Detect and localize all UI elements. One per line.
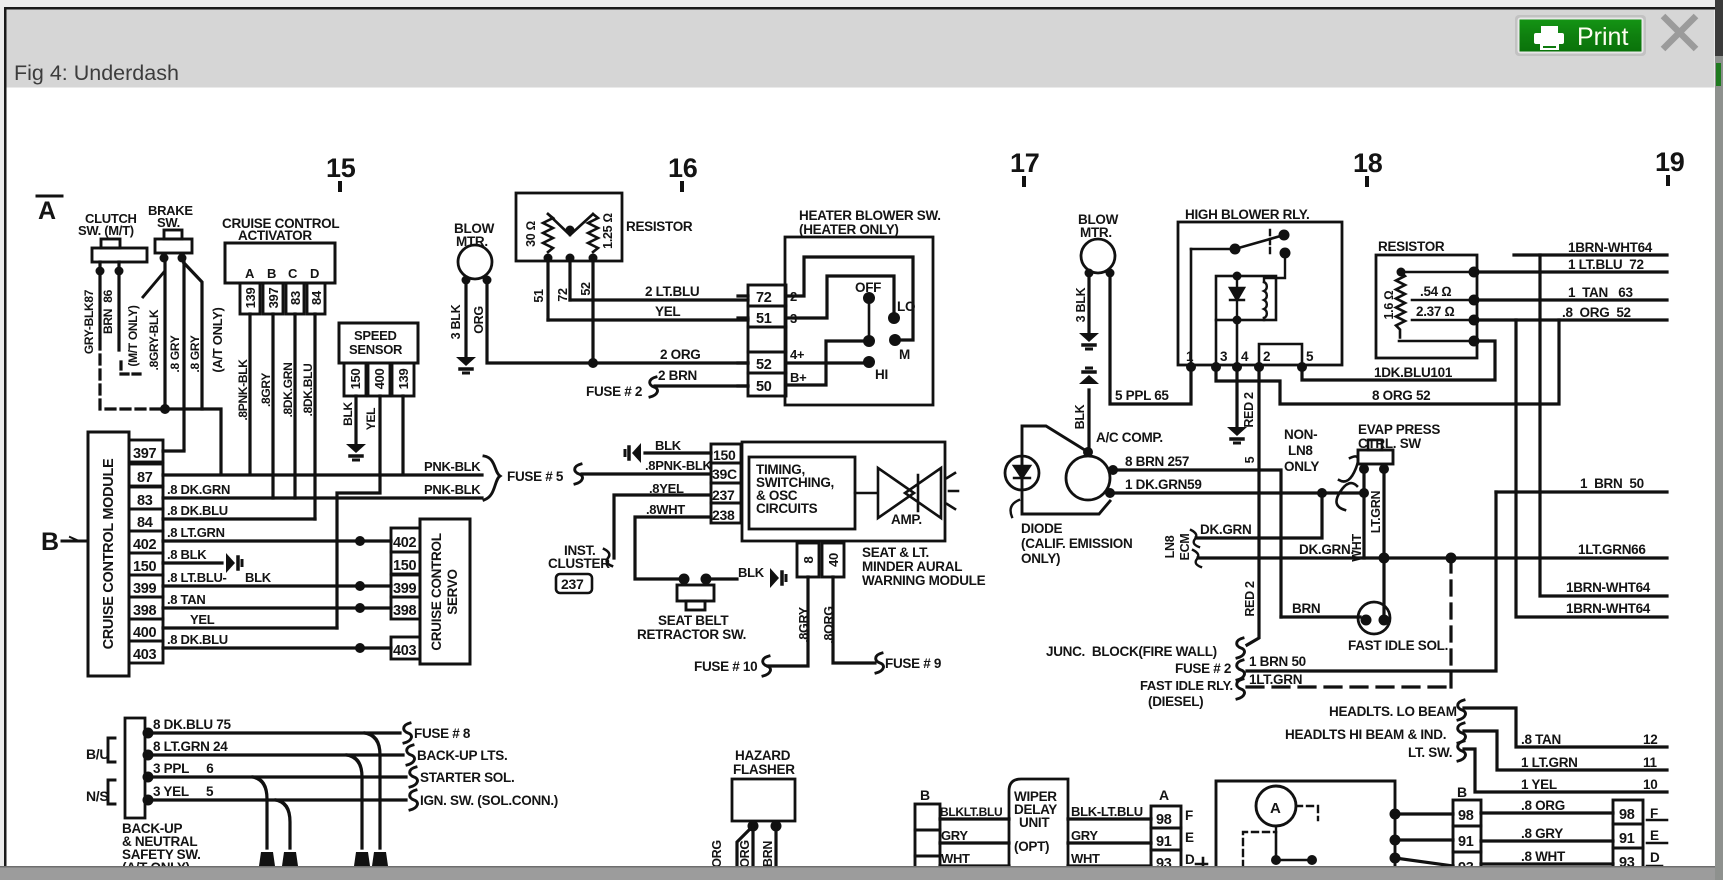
A connector box 91	[1151, 828, 1181, 850]
relay pin 4 conductor	[1236, 320, 1239, 365]
wire 51 resistor down	[546, 258, 549, 320]
svg-text:.8 GRY: .8 GRY	[188, 335, 202, 372]
wire 72 resistor down	[568, 258, 571, 300]
svg-text:398: 398	[393, 603, 417, 619]
svg-text:.8 ORG 52: .8 ORG 52	[1562, 305, 1631, 320]
svg-text:CRUISE CONTROL MODULE: CRUISE CONTROL MODULE	[101, 458, 117, 649]
svg-text:FUSE # 2: FUSE # 2	[1175, 661, 1231, 676]
hook before fuse5 wire	[575, 464, 583, 484]
svg-text:3 BLK: 3 BLK	[449, 304, 463, 339]
svg-text:(CALIF. EMISSION: (CALIF. EMISSION	[1021, 536, 1132, 551]
branch curve from wire2 down	[347, 755, 362, 848]
dashed wire clutch to junction	[100, 340, 160, 409]
svg-text:1LT.GRN66: 1LT.GRN66	[1578, 542, 1646, 557]
servo pin box 402	[391, 528, 420, 552]
module pin box 83	[129, 487, 163, 509]
svg-text:ONLY: ONLY	[1284, 459, 1319, 474]
svg-text:.8 LT.GRN: .8 LT.GRN	[167, 525, 225, 540]
blow motor M1 circle	[458, 245, 492, 279]
wire row 84 .8 DK.BLU	[163, 517, 315, 520]
svg-text:JUNC. BLOCK(FIRE WALL): JUNC. BLOCK(FIRE WALL)	[1046, 644, 1217, 659]
titlebar gray band	[7, 10, 1715, 88]
svg-text:3: 3	[1220, 349, 1228, 364]
A/C comp enclosure	[1022, 426, 1110, 514]
svg-text:.8 BLK: .8 BLK	[167, 547, 207, 562]
resistor coil left	[543, 214, 553, 252]
wire 1 TAN 63	[1477, 298, 1667, 301]
svg-text:FUSE # 2: FUSE # 2	[586, 384, 642, 399]
svg-text:BLK: BLK	[341, 401, 355, 425]
wire BLKLT.BLU wiper left	[940, 817, 1009, 820]
svg-text:150: 150	[713, 447, 736, 463]
svg-text:238: 238	[712, 507, 735, 523]
wire WHT wiper right	[1068, 864, 1151, 867]
close X icon	[1663, 16, 1696, 49]
section 16 tick	[680, 183, 684, 190]
wire .8DK.GRN activator C down	[293, 314, 296, 498]
high blower relay box K1	[1178, 222, 1342, 365]
svg-text:15: 15	[326, 153, 356, 183]
wire .8 GRY brake vertical 2 (A/T)	[184, 263, 202, 409]
svg-text:WARNING MODULE: WARNING MODULE	[862, 573, 986, 588]
svg-text:A: A	[1159, 787, 1169, 803]
svg-text:PNK-BLK: PNK-BLK	[424, 459, 481, 474]
wire GRY wiper left	[940, 841, 1009, 844]
A connector box 93	[1151, 850, 1181, 872]
node on LT.GRN net	[1446, 553, 1457, 564]
lamp A circle	[1256, 786, 1296, 826]
svg-text:.8 GRY: .8 GRY	[168, 335, 182, 372]
relay coil winding	[1264, 282, 1267, 318]
relay dashed actuator line	[1269, 230, 1271, 253]
svg-text:D: D	[310, 266, 319, 281]
svg-text:RETRACTOR SW.: RETRACTOR SW.	[637, 627, 746, 642]
wire lo beam to .8 TAN 12	[1464, 708, 1667, 747]
svg-text:1 BRN 50: 1 BRN 50	[1249, 654, 1306, 669]
svg-text:BACK-UP LTS.: BACK-UP LTS.	[417, 748, 507, 763]
svg-text:BRN: BRN	[761, 841, 775, 867]
svg-text:5: 5	[1306, 349, 1314, 364]
svg-text:SENSOR: SENSOR	[349, 342, 403, 357]
wire LT.GRN evap right pin down to sol	[1382, 469, 1385, 619]
wire 8 BRN 257	[1113, 470, 1281, 617]
resistor V link	[548, 214, 593, 235]
lamp box right edge dots	[1390, 809, 1401, 820]
heater resistor box R1	[516, 193, 622, 261]
svg-text:CIRCUITS: CIRCUITS	[756, 501, 818, 516]
A connector box 98	[1151, 806, 1181, 828]
svg-text:5: 5	[1243, 456, 1257, 463]
svg-text:RED 2: RED 2	[1243, 581, 1257, 617]
wire retractor to BLK ground	[706, 577, 737, 580]
svg-text:399: 399	[393, 581, 417, 597]
lamp stub right	[1296, 806, 1318, 820]
wire .8PNK-BLK activator A down	[248, 314, 251, 474]
wire .8YEL inst cluster to 237	[614, 495, 711, 558]
wire WHT wiper left	[940, 864, 1009, 867]
hook FUSE #8	[404, 723, 412, 743]
ground speed sensor	[346, 444, 366, 460]
svg-text:.8 WHT: .8 WHT	[1521, 849, 1566, 864]
svg-text:1 YEL: 1 YEL	[1521, 777, 1557, 792]
wire row 400 YEL	[163, 626, 337, 629]
ground retractor (sideways right)	[770, 568, 786, 588]
svg-text:139: 139	[243, 288, 258, 309]
svg-text:398: 398	[133, 603, 157, 619]
module bottom pin box 8	[797, 543, 819, 577]
svg-text:16: 16	[668, 153, 698, 183]
svg-text:LT.GRN: LT.GRN	[1369, 491, 1383, 534]
wires lamp box to B column	[1395, 814, 1453, 866]
evap press ctrl switch SW5	[1368, 440, 1382, 450]
svg-text:5 PPL 65: 5 PPL 65	[1115, 388, 1169, 403]
svg-text:(M/T ONLY): (M/T ONLY)	[126, 305, 140, 367]
vertical from ORG52 to BRN-WHT64 lower	[1516, 320, 1667, 617]
svg-text:84: 84	[137, 515, 153, 531]
svg-text:SW. (M/T): SW. (M/T)	[78, 223, 134, 238]
wire .8 ORG 52 right	[1477, 318, 1667, 321]
wire row 150 .8 BLK to ground	[163, 561, 222, 564]
hazard flasher box	[732, 779, 795, 821]
B/U bracket	[108, 738, 115, 762]
svg-text:SEAT BELT: SEAT BELT	[658, 613, 729, 628]
svg-text:87: 87	[137, 470, 153, 486]
svg-text:ORG: ORG	[738, 840, 752, 868]
237 boxed label	[556, 574, 592, 593]
svg-text:399: 399	[133, 581, 157, 597]
B column box 98	[1453, 800, 1481, 826]
wire .8GRY module 8 down	[768, 577, 808, 666]
svg-text:72: 72	[756, 290, 772, 306]
svg-text:BLK: BLK	[738, 565, 765, 580]
svg-text:4: 4	[1241, 349, 1249, 364]
svg-text:30 Ω: 30 Ω	[524, 221, 538, 247]
svg-text:DK.GRN: DK.GRN	[1200, 522, 1251, 537]
wire ORG blow mtr to 52 node	[487, 280, 593, 363]
svg-text:(DIESEL): (DIESEL)	[1148, 694, 1203, 709]
wire GRY-BLK 87 from clutch	[98, 275, 101, 337]
svg-text:E: E	[1185, 830, 1194, 845]
svg-text:91: 91	[1156, 834, 1172, 850]
module pin box 397	[129, 440, 163, 462]
svg-text:HEATER BLOWER SW.: HEATER BLOWER SW.	[799, 208, 941, 223]
resistor right edge dots	[1469, 267, 1480, 278]
cruise control servo box U2	[420, 519, 470, 664]
svg-text:.8WHT: .8WHT	[646, 502, 685, 517]
brace } before FUSE #5	[484, 456, 500, 500]
wire pin5 1DK.BLU101 to resistor18	[1302, 341, 1495, 380]
svg-text:1 TAN 63: 1 TAN 63	[1568, 285, 1634, 300]
wire row 398 .8 TAN to servo	[163, 606, 391, 609]
heater inner wire pin2 to M	[786, 257, 913, 340]
resistor 18 inner line to top-right	[1401, 271, 1477, 274]
svg-text:8: 8	[801, 556, 816, 563]
branch curve from wire4 down	[276, 800, 290, 848]
wire 1BRN-WHT64 top	[1514, 253, 1667, 256]
svg-text:.8ORG: .8ORG	[822, 606, 836, 643]
wire 8 DK.BLU 75 to FUSE #8	[148, 731, 400, 734]
wire .8 GRY to E91	[1481, 839, 1613, 842]
wire BRN to fast idle sol	[1281, 615, 1360, 618]
svg-text:D: D	[1185, 852, 1195, 867]
wire pin4 to ground RED 2	[1235, 367, 1238, 427]
wire 1 DK.GRN 59	[1110, 491, 1364, 494]
svg-text:RED 2: RED 2	[1242, 392, 1256, 428]
wire lt sw to 1 YEL 10	[1464, 749, 1667, 792]
svg-text:B: B	[1457, 784, 1467, 800]
svg-text:72: 72	[556, 288, 570, 302]
svg-text:ORG: ORG	[472, 306, 486, 334]
dashed bracket under clutch wires	[121, 362, 142, 374]
svg-text:83: 83	[288, 291, 303, 305]
dashed wire 1LT.GRN fast idle rly	[1247, 685, 1451, 688]
svg-text:YEL: YEL	[655, 304, 680, 319]
activator pin box 139	[240, 283, 260, 314]
svg-text:1BRN-WHT64: 1BRN-WHT64	[1568, 240, 1653, 255]
svg-text:YEL: YEL	[190, 612, 215, 627]
module pin box 84	[129, 509, 163, 531]
wire BRN 86 from clutch	[117, 275, 120, 350]
module pin box 399	[129, 575, 163, 597]
svg-text:.8 DK.BLU: .8 DK.BLU	[167, 503, 228, 518]
heater inner wire pin50/B+ up	[786, 341, 863, 385]
relay pin 3 conductor	[1215, 320, 1218, 365]
twisted pair squiggle	[1336, 456, 1358, 510]
svg-text:LN8: LN8	[1288, 443, 1313, 458]
resistor coil right	[588, 214, 598, 252]
svg-text:.8PNK-BLK: .8PNK-BLK	[645, 458, 713, 473]
svg-text:YEL: YEL	[364, 408, 378, 430]
wire 8 LT.GRN 24 to BACK-UP LTS	[148, 753, 403, 756]
servo pin box 150	[391, 552, 420, 574]
speed sensor pin box 139	[392, 363, 414, 396]
svg-text:237: 237	[561, 576, 584, 592]
relay diode CR	[1230, 276, 1244, 320]
cruise control activator box	[225, 243, 335, 283]
svg-text:8 ORG 52: 8 ORG 52	[1372, 388, 1430, 403]
svg-text:98: 98	[1619, 807, 1635, 823]
wire hi beam to 1 LT.GRN 11	[1464, 731, 1667, 770]
2.37 ohm tap	[1412, 319, 1477, 322]
svg-text:98: 98	[1156, 812, 1172, 828]
svg-text:.8 TAN: .8 TAN	[167, 592, 205, 607]
wire FUSE #5 to 39C	[582, 472, 711, 475]
svg-text:WHT: WHT	[1071, 851, 1100, 866]
resistor 18 box R2	[1376, 255, 1477, 358]
dialog left black border	[4, 7, 7, 866]
svg-text:RESISTOR: RESISTOR	[1378, 239, 1445, 254]
svg-text:8 LT.GRN 24: 8 LT.GRN 24	[153, 739, 228, 754]
svg-text:2.37 Ω: 2.37 Ω	[1416, 304, 1455, 319]
svg-text:B+: B+	[790, 370, 807, 385]
module pin box 150	[129, 553, 163, 575]
svg-text:E: E	[1650, 828, 1659, 843]
branch curve from wire3 down	[253, 777, 267, 848]
resistor bottom tap	[1399, 340, 1477, 343]
svg-text:.8GRY-BLK: .8GRY-BLK	[147, 309, 161, 370]
ground module 150 (sideways)	[226, 553, 242, 573]
ECM wire DK.GRN lower to LT.GRN net	[1198, 556, 1667, 559]
svg-text:1: 1	[1186, 349, 1194, 364]
connector stubs bottom pair 2	[354, 852, 370, 866]
svg-text:1.25 Ω: 1.25 Ω	[601, 213, 615, 249]
svg-text:FUSE # 5: FUSE # 5	[507, 469, 564, 484]
heater pin box 72	[748, 285, 786, 306]
svg-text:DK.GRN.: DK.GRN.	[1299, 542, 1354, 557]
svg-text:MINDER AURAL: MINDER AURAL	[862, 559, 962, 574]
connector stubs bottom pair 1	[259, 852, 275, 866]
wire pin2 5 RED 2 to junction block	[1247, 367, 1259, 645]
svg-text:Print: Print	[1577, 23, 1628, 51]
A/C compressor circle	[1066, 456, 1110, 500]
section 19 tick	[1666, 177, 1670, 184]
svg-text:NON-: NON-	[1284, 427, 1317, 442]
svg-text:N/S: N/S	[86, 788, 108, 804]
svg-text:D: D	[1650, 850, 1660, 865]
heater inner wire pin3 to LO	[786, 276, 894, 318]
svg-text:HIGH BLOWER RLY.: HIGH BLOWER RLY.	[1185, 207, 1309, 222]
wire from sensor 139 to row 87	[401, 396, 404, 474]
svg-text:ECM: ECM	[1178, 534, 1192, 561]
backup pin dots	[143, 728, 154, 739]
svg-text:51: 51	[532, 289, 546, 303]
svg-text:.8 ORG: .8 ORG	[1521, 798, 1565, 813]
F column box 93	[1613, 848, 1643, 872]
svg-text:GRY: GRY	[1071, 828, 1098, 843]
resistor bottom dots	[544, 254, 553, 263]
right scrollbar green thumb	[1716, 63, 1721, 86]
svg-text:40: 40	[826, 553, 841, 567]
module pin box 398	[129, 597, 163, 619]
dialog top black border	[4, 7, 1715, 10]
svg-text:B/U: B/U	[86, 746, 109, 762]
FUSE #9 label	[876, 653, 884, 673]
svg-text:ONLY): ONLY)	[1021, 551, 1060, 566]
svg-text:2 ORG: 2 ORG	[660, 347, 701, 362]
hook BACK-UP LTS	[407, 745, 415, 765]
svg-text:F: F	[1185, 808, 1193, 823]
svg-text:BLKLT.BLU: BLKLT.BLU	[940, 805, 1002, 819]
module pin box 150	[711, 444, 741, 463]
lamp dashed internals	[1243, 826, 1276, 867]
svg-text:52: 52	[579, 282, 593, 296]
svg-text:A: A	[245, 266, 255, 281]
center contact	[863, 335, 875, 347]
wire .8ORG module 40 down	[833, 577, 875, 663]
svg-text:402: 402	[393, 535, 417, 551]
wire junction to module pin 87 column	[165, 409, 221, 474]
svg-text:LT. SW.: LT. SW.	[1408, 745, 1452, 760]
svg-text:237: 237	[712, 487, 735, 503]
svg-text:HI: HI	[875, 367, 888, 382]
timing switching inner box	[749, 457, 855, 529]
svg-text:50: 50	[756, 379, 772, 395]
wire .8 ORG to F98	[1481, 811, 1613, 814]
switch arm OFF to center	[868, 304, 871, 336]
B column box 93	[1453, 852, 1481, 878]
wire 52 resistor down	[591, 258, 594, 363]
brake switch SW2	[164, 230, 182, 239]
svg-text:(HEATER ONLY): (HEATER ONLY)	[799, 222, 899, 237]
svg-text:1.6 Ω: 1.6 Ω	[1382, 291, 1396, 320]
relay pin bottom dots	[1186, 362, 1196, 372]
relay switch arm	[1191, 235, 1284, 249]
svg-text:A: A	[1270, 800, 1281, 817]
wire .8 GRY brake vertical 1	[182, 261, 185, 449]
svg-text:WHT: WHT	[941, 851, 970, 866]
svg-text:BLK-LT.BLU: BLK-LT.BLU	[1071, 804, 1143, 819]
wire 2 LT.BLU to pin72	[570, 298, 748, 301]
lamp assembly box	[1216, 781, 1395, 867]
svg-text:1BRN-WHT64: 1BRN-WHT64	[1566, 580, 1651, 595]
ECM wire DK.GRN upper	[1196, 493, 1322, 538]
section 17 tick	[1022, 178, 1026, 185]
relay inner pin2-pin5 link	[1259, 344, 1302, 365]
section 15 tick	[338, 183, 342, 190]
svg-text:.8DK.BLU: .8DK.BLU	[301, 364, 315, 417]
backup/neutral connector box	[125, 718, 145, 818]
heater blower switch box SW3	[785, 237, 933, 405]
wire .8WHT 238 to retractor	[635, 517, 711, 579]
wire .8GRY-BLK brake to junction	[163, 261, 166, 406]
heater pin box 50	[748, 373, 786, 396]
speed sensor pin box 400	[368, 363, 390, 396]
svg-text:98: 98	[1458, 808, 1474, 824]
module pin box 237	[711, 483, 741, 503]
svg-text:IGN. SW. (SOL.CONN.): IGN. SW. (SOL.CONN.)	[420, 793, 558, 808]
svg-text:397: 397	[266, 288, 281, 309]
wire BLK-LT.BLU wiper right	[1068, 817, 1151, 820]
node junction clutch/brake	[160, 404, 170, 414]
svg-text:ACTIVATOR: ACTIVATOR	[238, 228, 312, 243]
wire 3 BLK blow mtr to ground	[464, 280, 467, 357]
svg-text:.8 GRY: .8 GRY	[1521, 826, 1563, 841]
svg-text:1 BRN 50: 1 BRN 50	[1580, 476, 1644, 491]
svg-text:403: 403	[393, 643, 417, 659]
svg-text:.8DK.GRN: .8DK.GRN	[281, 363, 295, 418]
wire .8GRY activator B down	[271, 314, 274, 498]
svg-text:.8 DK.GRN: .8 DK.GRN	[167, 482, 230, 497]
module pin box 400	[129, 619, 163, 641]
svg-text:UNIT: UNIT	[1019, 815, 1050, 830]
clutch switch SW1	[101, 239, 120, 248]
svg-text:8 DK.BLU 75: 8 DK.BLU 75	[153, 717, 232, 732]
heater pin box blank	[748, 327, 786, 352]
N/S bracket	[108, 780, 115, 804]
activator pin box 83	[286, 283, 304, 314]
wire 3 YEL 5 to IGN SW	[148, 798, 406, 801]
section 18 tick	[1365, 178, 1369, 185]
wiper delay unit box U4	[1009, 779, 1068, 880]
wire 1 LT.BLU 72	[1477, 270, 1667, 273]
wire 8 ORG 52 from relay pin 3	[1216, 320, 1559, 404]
svg-text:.8 LT.BLU-: .8 LT.BLU-	[167, 570, 227, 585]
wire row 402 .8 LT.GRN to servo	[163, 539, 391, 542]
svg-text:1LT.GRN: 1LT.GRN	[1249, 672, 1302, 687]
svg-text:.54 Ω: .54 Ω	[1420, 284, 1451, 299]
svg-text:8 BRN 257: 8 BRN 257	[1125, 454, 1189, 469]
hazard wires down	[737, 826, 753, 866]
right scrollbar track	[1715, 56, 1723, 880]
svg-text:GRY: GRY	[941, 828, 968, 843]
svg-text:1 LT.BLU 72: 1 LT.BLU 72	[1568, 257, 1644, 272]
wire BLK gnd to 150	[645, 451, 711, 454]
svg-text:52: 52	[756, 357, 772, 373]
svg-text:91: 91	[1619, 831, 1635, 847]
svg-text:19: 19	[1655, 147, 1685, 177]
svg-text:51: 51	[756, 311, 772, 327]
svg-text:BLK: BLK	[655, 438, 682, 453]
